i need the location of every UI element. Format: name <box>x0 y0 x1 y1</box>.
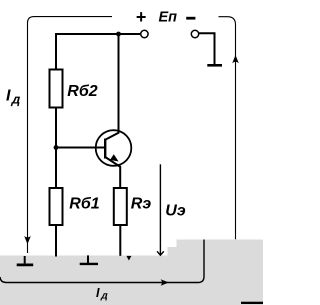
transistor VT circle <box>96 130 132 166</box>
gray overlay patch middle step <box>168 247 264 305</box>
svg-text:I: I <box>6 88 11 105</box>
transistor base bar <box>104 139 106 159</box>
node: junction dot at collector/top rail <box>116 32 121 37</box>
black bar bottom right <box>241 302 263 304</box>
label minus <box>186 17 195 20</box>
transistor collector lead <box>105 35 118 140</box>
arrow on left Id loop (pointing down) <box>24 236 31 244</box>
small arrow below Re lead <box>126 256 131 261</box>
svg-text:Rб2: Rб2 <box>67 83 97 100</box>
wire: Id loop left side and top-left segment <box>28 17 113 253</box>
resistor Re <box>114 188 127 225</box>
arrow on bottom Id loop (pointing right) <box>161 279 169 286</box>
terminal + circle <box>141 30 148 37</box>
ground middle <box>87 255 89 263</box>
svg-text:Rэ: Rэ <box>131 196 152 213</box>
wire: divider chain Rb2 bottom to Rb1 top <box>55 108 57 189</box>
resistor Rb1 <box>50 188 63 225</box>
transistor emitter lead <box>105 157 120 188</box>
svg-text:Uэ: Uэ <box>165 203 186 220</box>
gray overlay patch right block <box>177 240 264 305</box>
ground left (under Id loop) <box>24 256 26 263</box>
svg-text:Rб1: Rб1 <box>69 196 99 213</box>
svg-text:+: + <box>136 7 147 27</box>
wire: base wire <box>56 147 104 149</box>
svg-text:Eп: Eп <box>159 10 178 26</box>
terminal - circle <box>191 30 198 37</box>
wire: from - terminal right and down <box>199 33 215 64</box>
Ue voltage arrow line <box>159 164 161 255</box>
wire: Id loop bottom segment with rounded corners <box>0 240 204 283</box>
wire: Rb1 bottom lead <box>55 225 57 257</box>
transistor emitter arrow <box>110 154 119 161</box>
node: base junction dot <box>54 145 59 150</box>
gray overlay patch (bottom region) <box>0 256 263 305</box>
wire: Re bottom lead <box>119 225 121 256</box>
wire: top rail from Rb2 top to + terminal <box>56 34 140 70</box>
svg-text:I: I <box>96 286 100 300</box>
Ue arrowhead <box>157 251 164 255</box>
arrow on right Id loop (pointing up) <box>232 55 239 63</box>
battery plate bar under - terminal <box>207 64 222 67</box>
wire: Id loop top-right segment and right side <box>219 17 236 240</box>
resistor Rb2 <box>50 70 63 108</box>
